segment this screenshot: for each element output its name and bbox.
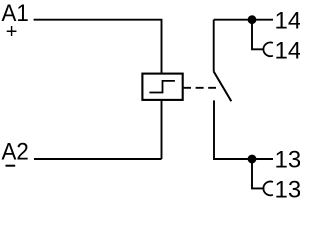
svg-text:13: 13 (275, 176, 301, 200)
svg-text:+: + (6, 21, 18, 43)
svg-text:13: 13 (275, 147, 301, 174)
svg-text:14: 14 (275, 7, 301, 34)
svg-text:A2: A2 (2, 138, 29, 165)
svg-text:14: 14 (275, 37, 301, 64)
